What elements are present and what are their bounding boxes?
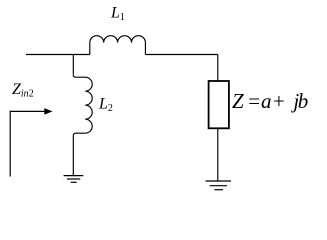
ground (left): [64, 176, 84, 183]
svg-text:L2: L2: [98, 96, 113, 115]
svg-text:Z=a+jb: Z=a+jb: [232, 89, 308, 113]
ground (right): [206, 181, 231, 190]
inductor L1: [90, 36, 146, 55]
impedance box Z: [209, 81, 229, 128]
wire: L2 to ground: [72, 136, 74, 176]
svg-text:Zin2: Zin2: [12, 81, 34, 99]
wire: L1 to load node: [145, 54, 217, 56]
arrow: Zin2 looking-in annotation: [10, 108, 52, 176]
wire: drop to load box: [217, 55, 219, 82]
wire: input lead: [26, 54, 90, 56]
inductor L2: [73, 75, 92, 136]
wire: tee drop to L2: [72, 55, 74, 75]
wire: load box to ground: [217, 128, 219, 181]
svg-text:L1: L1: [110, 5, 125, 24]
